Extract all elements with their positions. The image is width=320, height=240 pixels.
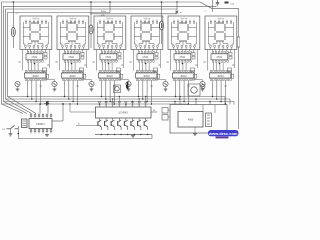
resistor R28 — [162, 108, 168, 114]
carry gate right of counter 3 — [120, 74, 123, 78]
wire feeds above U13 — [39, 104, 41, 114]
svg-text:a1: a1 — [16, 13, 18, 15]
wire counter U9 drops to bus — [102, 80, 115, 104]
wire module DS2 to decoder U2 — [64, 50, 78, 52]
wire rail to bottom rail — [151, 135, 153, 139]
wire into U15 upper left — [70, 111, 96, 113]
pin 16 stub U15 — [151, 111, 157, 113]
transistor Q2 — [52, 81, 57, 86]
node dot decoder 6 — [219, 63, 220, 64]
wire bottom bus line 4 — [8, 96, 226, 98]
wire top bus line 4 — [8, 12, 111, 14]
wire bottom bus line 1 — [2, 103, 189, 105]
ground for transistor Q6 — [201, 88, 205, 90]
label specks column 4 — [130, 62, 161, 87]
watermark www.dzsc.com — [208, 130, 239, 138]
node dot decoder 1 — [34, 63, 35, 64]
ground for transistor Q2 — [53, 88, 57, 90]
svg-text:CD4017: CD4017 — [36, 123, 45, 126]
resistor network RN1 — [44, 53, 47, 56]
wire U13 right — [52, 120, 63, 122]
decoder U5 C521 — [174, 51, 191, 62]
wire module DS3 to decoder U3 — [101, 50, 115, 52]
label specks column 3 — [93, 62, 124, 87]
wire carry link 4 — [156, 79, 166, 81]
ground for transistor Q5 — [164, 88, 168, 90]
gate G5 — [191, 68, 195, 72]
decoder U3 C521 — [100, 51, 117, 62]
wire top right feed — [213, 7, 239, 9]
7-segment display module DS6 — [205, 16, 237, 50]
wire into U15 left — [76, 125, 98, 127]
wire column 4 left side — [132, 50, 134, 71]
wire top bus line 2 — [4, 5, 217, 7]
wire column 6 left side — [206, 50, 208, 71]
carry gate right of counter 2 — [83, 74, 86, 78]
transistor Q16 — [131, 118, 134, 130]
wire top bus line 3 — [6, 8, 178, 10]
IC U15 MC14543 — [96, 107, 152, 118]
label specks column 6 — [204, 62, 235, 87]
transistor Q17 — [138, 118, 141, 130]
wire driver common rail — [95, 134, 152, 136]
transistor Q9 — [201, 85, 205, 89]
IC U16 CD4060 — [178, 112, 203, 128]
wire column 5 right side — [197, 50, 199, 69]
transistor Q12 — [105, 118, 108, 130]
wire left bus vertical 2 — [3, 6, 5, 101]
gate G3 — [117, 68, 121, 72]
wire decoder U5 to counter U11 — [177, 62, 187, 70]
wire right rail — [238, 8, 240, 37]
svg-text:www.dzsc.com: www.dzsc.com — [208, 131, 238, 136]
junction dots column 5 — [175, 96, 189, 105]
ground for transistor Q4 — [127, 88, 131, 90]
wire module DS5 to decoder U5 — [175, 50, 189, 52]
wire left bus vertical 1 — [1, 2, 3, 104]
resistor network RN2 — [81, 53, 84, 56]
counter U10 40110 — [136, 70, 158, 80]
opto isolator U14 — [22, 119, 28, 128]
wire left bus vertical 4 — [7, 13, 9, 97]
wire counter U8 drops to bus — [65, 80, 78, 104]
transistor Q6 — [200, 81, 205, 86]
carry gate right of counter 5 — [194, 74, 197, 78]
gate G1 — [43, 68, 47, 72]
wire bottom bus line 2 — [4, 101, 235, 103]
decoder U6 C521 — [211, 51, 228, 62]
wire column 3 left side — [95, 50, 97, 71]
wire decoder U3 to counter U9 — [103, 62, 113, 70]
wire counter U11 drops to bus — [176, 80, 189, 104]
junction dots column 2 — [64, 96, 78, 105]
wire counter U7 drops to bus — [28, 80, 41, 104]
counter U12 40110 — [210, 70, 232, 80]
gate G4 — [154, 68, 158, 72]
7-segment display module DS5 — [168, 16, 200, 50]
transistor Q18 — [144, 118, 147, 130]
node dot decoder 2 — [71, 63, 72, 64]
wire carry link 2 — [82, 79, 92, 81]
transistor Q14 — [118, 118, 121, 130]
ground U13 — [45, 134, 49, 136]
junction dots column 1 — [27, 96, 41, 105]
resistor network RN3 — [118, 53, 121, 56]
transistor Q5 — [163, 81, 168, 86]
wire diagonal fan to U13 — [2, 104, 24, 114]
7-segment display module DS1 — [20, 16, 52, 50]
pins U13 top — [30, 114, 52, 119]
wire counter U12 drops to bus — [213, 80, 226, 104]
carry gate right of counter 6 — [231, 74, 234, 78]
wire carry link 5 — [193, 79, 203, 81]
wire left bus vertical 3 — [5, 9, 7, 99]
decoder U1 C521 — [26, 51, 43, 62]
resistor network RN6 — [229, 53, 232, 56]
transistor Q1 — [15, 81, 20, 86]
crystal Y1 32768Hz — [206, 113, 212, 127]
ground for transistor Q3 — [90, 88, 94, 90]
wire hour net — [90, 13, 177, 15]
ground for S1 — [9, 133, 13, 135]
wire module DS4 to decoder U4 — [138, 50, 152, 52]
counter U9 40110 — [99, 70, 121, 80]
node dots on top bus — [13, 1, 15, 3]
counter U11 40110 — [173, 70, 195, 80]
wire column 2 right side — [86, 50, 88, 69]
wire feed x110 — [109, 2, 111, 13]
capacitor C10 top right — [217, 0, 219, 2]
buzzer B1 — [114, 85, 121, 93]
counter U8 40110 — [62, 70, 84, 80]
ground oscillator — [193, 133, 197, 135]
wire column 1 left side — [21, 50, 23, 71]
oscillator module frame — [170, 105, 227, 134]
decoder U2 C521 — [63, 51, 80, 62]
node dot decoder 4 — [145, 63, 146, 64]
lamp NE3 colon — [161, 2, 163, 21]
capacitor C12 — [162, 115, 168, 121]
7-segment display module DS2 — [57, 16, 89, 50]
wire bottom rail — [18, 138, 152, 140]
junction dots column 6 — [212, 96, 226, 105]
wire decoder U4 to counter U10 — [140, 62, 150, 70]
IC U13 CD4017 — [29, 119, 52, 129]
ground driver rail — [131, 134, 135, 136]
resistor network RN4 — [155, 53, 158, 56]
wire column 3 right side — [123, 50, 125, 69]
lamp NE1 colon — [12, 2, 14, 28]
resistor network RN5 — [192, 53, 195, 56]
diode D1 — [46, 101, 50, 106]
wire column 2 left side — [58, 50, 60, 71]
svg-text:4060: 4060 — [188, 119, 194, 122]
wire module DS1 to decoder U1 — [27, 50, 41, 52]
transistor Q3 — [89, 81, 94, 86]
diode D2 — [127, 82, 129, 89]
pins U13 bottom — [30, 129, 52, 134]
wire column 1 right side — [49, 50, 51, 69]
node W junction mark — [175, 11, 178, 14]
wire oscillator feeds — [179, 97, 181, 105]
wire module DS6 to decoder U6 — [212, 50, 226, 52]
transistor Q15 — [124, 118, 127, 130]
junction dots column 3 — [101, 96, 115, 105]
carry gate right of counter 4 — [157, 74, 160, 78]
wire column 5 left side — [169, 50, 171, 71]
resistor R30 right edge — [237, 37, 240, 47]
wire column 4 right side — [160, 50, 162, 69]
transistor Q13 — [111, 118, 114, 130]
wire carry link 3 — [119, 79, 129, 81]
node dot decoder 5 — [182, 63, 183, 64]
7-segment display module DS3 — [94, 16, 126, 50]
transistor Q4 — [126, 81, 131, 86]
node dot decoder 3 — [108, 63, 109, 64]
transistor Q11 — [98, 118, 101, 130]
ground for transistor Q1 — [16, 88, 20, 90]
junction dot mid — [62, 103, 64, 105]
label specks column 5 — [167, 62, 198, 87]
wire counter U10 drops to bus — [139, 80, 152, 104]
carry gate right of counter 1 — [46, 74, 49, 78]
relay K1 — [188, 84, 200, 96]
lamp NE2 colon — [90, 2, 92, 25]
capacitor C11 top right — [225, 2, 229, 4]
label specks column 1 — [19, 62, 50, 87]
wire decoder U6 to counter U12 — [214, 62, 224, 70]
gate G2 — [80, 68, 84, 72]
junction dots column 4 — [138, 96, 152, 105]
wire decoder U1 to counter U7 — [29, 62, 39, 70]
wire top bus line 1 — [2, 1, 201, 3]
decoder U4 C521 — [137, 51, 154, 62]
wire decoder U2 to counter U8 — [66, 62, 76, 70]
wire column 6 right side — [234, 50, 236, 69]
svg-text:1/2 4543: 1/2 4543 — [118, 112, 128, 115]
wire carry link 1 — [45, 79, 55, 81]
pins U15 top — [99, 96, 147, 107]
7-segment display module DS4 — [131, 16, 163, 50]
wire bottom bus line 3 — [6, 98, 231, 100]
wire S1 rail — [17, 126, 19, 139]
gate G6 — [228, 68, 232, 72]
counter U7 40110 — [25, 70, 47, 80]
label specks column 2 — [56, 62, 87, 87]
